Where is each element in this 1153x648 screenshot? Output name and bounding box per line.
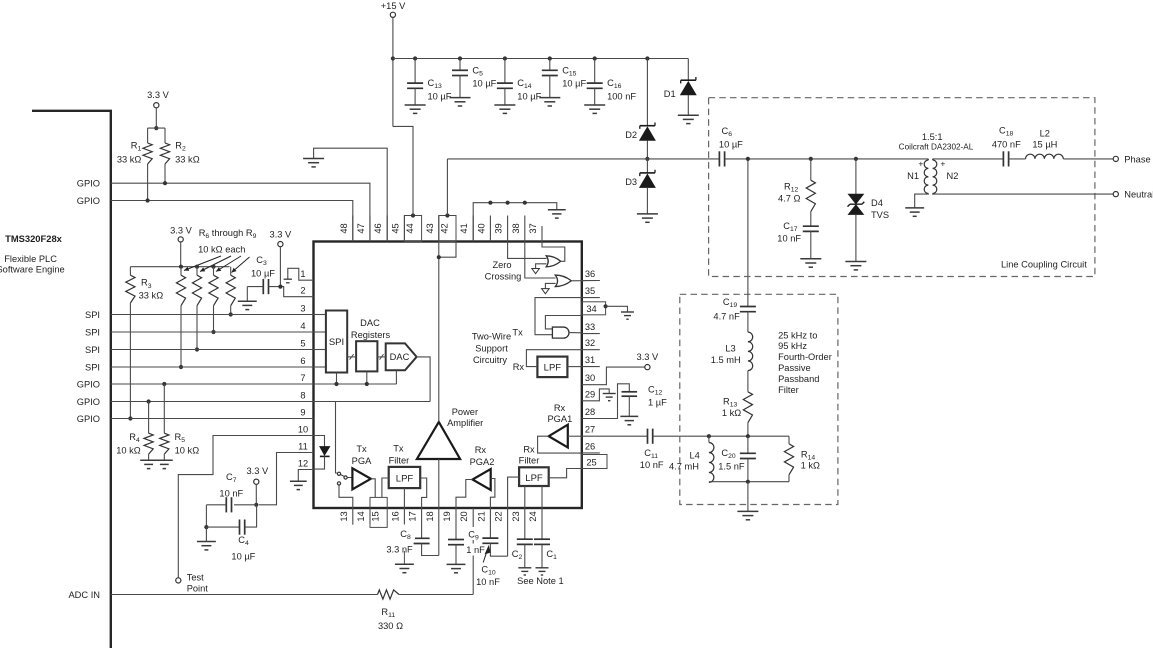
pin 15 lead (bottom) bbox=[370, 497, 387, 527]
svg-text:23: 23 bbox=[511, 511, 521, 521]
Tx PGA amplifier bbox=[352, 468, 370, 489]
bus DAC Registers to DAC bbox=[377, 356, 385, 358]
svg-text:SPI: SPI bbox=[85, 362, 100, 372]
wire pin 34 to AND input bbox=[545, 316, 581, 329]
wire Power Amplifier output pin 18 bbox=[438, 459, 440, 508]
svg-text:GPIO: GPIO bbox=[77, 196, 100, 206]
wire MCU row y=314.5 bbox=[111, 314, 314, 316]
Tx input switch bbox=[337, 472, 340, 475]
pin 24 lead (bottom) bbox=[541, 508, 543, 539]
pin 16 lead (bottom) bbox=[403, 508, 405, 525]
svg-text:1.5 mH: 1.5 mH bbox=[711, 355, 741, 365]
svg-text:10 nF: 10 nF bbox=[640, 460, 664, 470]
svg-text:33 kΩ: 33 kΩ bbox=[117, 154, 142, 164]
wire pin 28 to C12 bbox=[582, 384, 630, 419]
wire C18 to L2 bbox=[1009, 158, 1026, 160]
svg-text:Point: Point bbox=[187, 584, 209, 594]
ground under C13 bbox=[405, 105, 426, 113]
diode D1 bbox=[687, 59, 689, 81]
ground under C2 bbox=[518, 568, 531, 575]
ground at pin 29 bbox=[603, 394, 616, 401]
IC AFE031 outline bbox=[314, 242, 582, 509]
wire Rx LPF out to pin 25 bbox=[549, 469, 582, 478]
svg-text:18: 18 bbox=[425, 511, 435, 521]
svg-text:4: 4 bbox=[300, 321, 305, 331]
svg-text:ADC IN: ADC IN bbox=[68, 590, 100, 600]
svg-text:1.5 nF: 1.5 nF bbox=[718, 461, 745, 471]
wire gate2 lower input inverter bbox=[545, 283, 555, 288]
ground for pins 38-41 bbox=[548, 210, 566, 218]
capacitor C6 bbox=[719, 151, 724, 166]
wire gate1 lower input inverter bbox=[536, 264, 547, 269]
pin 45 lead (top) bbox=[403, 216, 405, 242]
svg-text:3.3 V: 3.3 V bbox=[246, 466, 269, 476]
wire N2 to C18 bbox=[933, 158, 1004, 160]
label C10 with arrow bbox=[483, 551, 487, 563]
capacitor C20 bbox=[747, 436, 749, 453]
wire gate1 output to pin 37 bbox=[542, 242, 565, 262]
logic gate zero-cross 1 bbox=[546, 256, 561, 267]
ground under N1 bbox=[905, 208, 924, 216]
wire MCU row y=349.5 bbox=[111, 349, 314, 351]
ground under D4 bbox=[845, 262, 866, 270]
pin 44 lead (top) bbox=[404, 216, 421, 242]
wire N1 bottom to ground bbox=[915, 194, 929, 208]
svg-text:8: 8 bbox=[300, 390, 305, 400]
ground at pin 12 bbox=[290, 481, 307, 489]
svg-text:7: 7 bbox=[300, 373, 305, 383]
ground under C1 bbox=[536, 568, 549, 575]
svg-text:Passband: Passband bbox=[778, 374, 819, 384]
pin 26 lead (right) bbox=[582, 452, 600, 454]
svg-text:24: 24 bbox=[528, 511, 538, 521]
svg-text:Tx: Tx bbox=[512, 327, 523, 337]
svg-text:D1: D1 bbox=[664, 89, 676, 99]
capacitor C7 bbox=[234, 504, 256, 506]
wire pin 29 to ground bbox=[582, 389, 609, 401]
Rx Filter LPF block (pins 22-24) bbox=[519, 467, 549, 486]
svg-text:Two-Wire: Two-Wire bbox=[472, 332, 511, 342]
svg-text:10 µF: 10 µF bbox=[562, 79, 586, 89]
svg-text:4.7 mH: 4.7 mH bbox=[669, 462, 699, 472]
capacitor C4 bbox=[206, 526, 239, 528]
Two-Wire LPF block bbox=[537, 357, 567, 378]
svg-text:10 nF: 10 nF bbox=[777, 234, 801, 244]
ground at pin 34 bbox=[621, 312, 634, 319]
svg-text:28: 28 bbox=[585, 407, 595, 417]
wire C6 to transformer bbox=[725, 158, 929, 160]
pin 40 lead (top) bbox=[489, 216, 491, 242]
svg-text:12: 12 bbox=[298, 458, 308, 468]
capacitor C5 bbox=[458, 56, 462, 60]
svg-text:LPF: LPF bbox=[525, 473, 543, 484]
svg-text:10 nF: 10 nF bbox=[219, 489, 243, 499]
ground under C3 bbox=[238, 301, 257, 309]
bus SPI to DAC Registers bbox=[347, 356, 356, 358]
svg-text:3.3 V: 3.3 V bbox=[270, 230, 293, 240]
svg-text:48: 48 bbox=[339, 223, 349, 233]
svg-text:20: 20 bbox=[459, 511, 469, 521]
pin 31 lead (right) bbox=[582, 366, 600, 368]
wire +15V rail horizontal bbox=[393, 58, 688, 60]
svg-text:D4: D4 bbox=[871, 198, 883, 208]
svg-text:33: 33 bbox=[585, 322, 595, 332]
wire R11 to pin 20 bbox=[399, 594, 473, 596]
Power Amplifier bbox=[417, 422, 460, 459]
pin 39 lead (top) bbox=[507, 216, 509, 242]
node R12 junction bbox=[809, 157, 813, 161]
svg-text:Neutral: Neutral bbox=[1124, 190, 1153, 200]
svg-text:3.3 V: 3.3 V bbox=[170, 225, 193, 235]
svg-text:Rx: Rx bbox=[554, 403, 566, 413]
logic gate zero-cross 2 bbox=[555, 275, 571, 287]
junction on ground rail bbox=[523, 201, 527, 205]
svg-text:Support: Support bbox=[475, 343, 508, 353]
Tx Filter LPF block bbox=[389, 467, 421, 488]
svg-text:L3: L3 bbox=[725, 344, 735, 354]
pin 20 lead (bottom) bbox=[472, 508, 474, 595]
wire DAC output bbox=[417, 357, 431, 402]
wire pin 30 to 3.3V bbox=[582, 367, 645, 385]
wire DAC to Tx switch bbox=[336, 402, 337, 474]
ground under R5 bbox=[156, 460, 173, 468]
svg-text:29: 29 bbox=[585, 389, 595, 399]
wire C6 node down to C19 bbox=[747, 159, 749, 307]
svg-text:SPI: SPI bbox=[329, 337, 344, 348]
ground under C15 bbox=[539, 98, 560, 106]
resistor R2 bbox=[164, 128, 166, 143]
svg-text:3: 3 bbox=[300, 303, 305, 313]
svg-text:SPI: SPI bbox=[85, 310, 100, 320]
ground under filter bbox=[747, 482, 749, 512]
pin 46 lead (top) bbox=[386, 216, 388, 242]
svg-text:Filter: Filter bbox=[519, 456, 540, 466]
wire +15V to pin 44 bbox=[393, 126, 413, 215]
svg-text:1.5:1: 1.5:1 bbox=[922, 132, 943, 142]
label C8 bbox=[396, 527, 415, 539]
resistor R6 pull-up bbox=[179, 265, 183, 269]
svg-text:GPIO: GPIO bbox=[77, 414, 100, 424]
label C9 bbox=[464, 527, 485, 540]
svg-text:Registers: Registers bbox=[351, 330, 391, 340]
resistor R5 bbox=[162, 382, 166, 386]
pin 48 lead (top) bbox=[352, 216, 354, 242]
resistor R14 bbox=[788, 436, 790, 444]
svg-text:Coilcraft DA2302-AL: Coilcraft DA2302-AL bbox=[899, 142, 974, 151]
pin 41 lead (top) bbox=[472, 216, 474, 242]
wire pin 34 to ground bbox=[606, 306, 628, 312]
arrows pointing to R6-R9 bbox=[184, 256, 221, 271]
filter dashed border bbox=[680, 294, 838, 504]
ground top-left bbox=[303, 159, 324, 167]
pin 35 lead (right) bbox=[582, 297, 600, 299]
diode D2 bbox=[645, 56, 649, 60]
pin 19 lead (bottom) bbox=[455, 508, 457, 540]
ground under C12 bbox=[620, 416, 638, 424]
svg-text:5: 5 bbox=[300, 338, 305, 348]
wire N2 bottom to Neutral bbox=[933, 193, 1114, 196]
capacitor C1 bbox=[534, 539, 550, 544]
capacitor C18 bbox=[1003, 151, 1008, 166]
svg-text:Fourth-Order: Fourth-Order bbox=[778, 352, 832, 362]
svg-text:6: 6 bbox=[300, 356, 305, 366]
transformer primary N1 bbox=[924, 160, 928, 194]
wire GPIO to pin 47 bbox=[111, 183, 370, 241]
svg-text:GPIO: GPIO bbox=[77, 179, 100, 189]
svg-text:SPI: SPI bbox=[85, 345, 100, 355]
junction on ground rail bbox=[506, 201, 510, 205]
svg-text:43: 43 bbox=[425, 223, 435, 233]
ground under C16 bbox=[584, 105, 605, 113]
svg-text:Power: Power bbox=[452, 407, 478, 417]
svg-text:10 kΩ: 10 kΩ bbox=[175, 445, 200, 455]
wire Rx PGA2 input from pin 21 bbox=[490, 479, 495, 509]
svg-text:N2: N2 bbox=[947, 171, 959, 181]
svg-text:DAC: DAC bbox=[360, 318, 380, 328]
svg-text:PGA: PGA bbox=[352, 456, 372, 466]
wire C3 to pin 2 bbox=[269, 287, 314, 297]
svg-text:38: 38 bbox=[511, 223, 521, 233]
wire rows 3-6 into SPI block bbox=[314, 314, 326, 316]
wire pin 12 to ground bbox=[298, 470, 313, 482]
junction on ground rail bbox=[488, 201, 492, 205]
inductor L3 bbox=[747, 312, 749, 332]
node L4 top bbox=[707, 434, 711, 438]
svg-text:33 kΩ: 33 kΩ bbox=[175, 154, 200, 164]
resistor R8 pull-up bbox=[211, 265, 215, 269]
wire pin 10 to test point bbox=[178, 436, 313, 578]
wire MCU row y=367 bbox=[111, 366, 314, 368]
wire gate2 output pin 36 bbox=[571, 280, 600, 282]
resistor R4 bbox=[147, 399, 151, 403]
svg-text:3.3 V: 3.3 V bbox=[637, 352, 660, 362]
resistor R9 pull-up bbox=[230, 267, 232, 276]
svg-text:33 kΩ: 33 kΩ bbox=[139, 291, 164, 301]
wire Rx PGA2 output to pin 19 bbox=[456, 480, 473, 509]
wire pin 7 bus under blocks bbox=[314, 383, 397, 385]
resistor R1 bbox=[147, 128, 149, 143]
svg-text:Rx: Rx bbox=[523, 445, 535, 455]
capacitor C13 bbox=[413, 56, 417, 60]
svg-text:330 Ω: 330 Ω bbox=[378, 621, 403, 631]
diode D4 TVS bbox=[855, 159, 857, 194]
pin 18 lead (bottom) bbox=[438, 508, 440, 556]
svg-text:30: 30 bbox=[585, 373, 595, 383]
svg-text:15 µH: 15 µH bbox=[1032, 139, 1057, 149]
wire pins 41-38 ground rail bbox=[473, 203, 557, 242]
transformer secondary N2 bbox=[933, 160, 937, 194]
svg-text:PGA1: PGA1 bbox=[547, 414, 572, 424]
pin 13 lead (bottom) bbox=[352, 508, 354, 525]
svg-text:10 µF: 10 µF bbox=[472, 79, 496, 89]
svg-text:3.3 V: 3.3 V bbox=[147, 90, 170, 100]
wire switch lower contact to pin 13 bbox=[339, 485, 353, 508]
pin 22 lead (bottom) bbox=[507, 508, 509, 556]
svg-text:Crossing: Crossing bbox=[485, 272, 522, 282]
ground under C5 bbox=[450, 98, 471, 106]
svg-text:4.7 Ω: 4.7 Ω bbox=[778, 193, 801, 203]
svg-text:+15 V: +15 V bbox=[381, 1, 406, 11]
ground for pin 16 net bbox=[403, 551, 405, 564]
svg-text:L4: L4 bbox=[690, 451, 700, 461]
svg-text:Test: Test bbox=[187, 573, 204, 583]
wire pin 39 to gate1 input bbox=[508, 242, 547, 259]
inductor L2 bbox=[1026, 154, 1064, 159]
svg-text:26: 26 bbox=[585, 441, 595, 451]
svg-text:D3: D3 bbox=[625, 177, 637, 187]
svg-text:35: 35 bbox=[585, 286, 595, 296]
capacitor C11 bbox=[648, 429, 653, 444]
ground under C4 node bbox=[205, 527, 207, 541]
svg-text:N1: N1 bbox=[907, 171, 919, 181]
svg-text:Filter: Filter bbox=[778, 385, 799, 395]
pin 34 lead (right) bbox=[582, 302, 606, 315]
svg-text:10 µF: 10 µF bbox=[251, 268, 275, 278]
ground under D1 bbox=[678, 115, 699, 123]
capacitor C3 bbox=[263, 279, 268, 294]
pin 33 lead (right) bbox=[582, 333, 600, 335]
svg-text:Phase: Phase bbox=[1124, 154, 1150, 164]
svg-text:Flexible PLC: Flexible PLC bbox=[4, 254, 57, 264]
capacitor C8 bbox=[414, 538, 430, 543]
wire pin 42 main line to C6 bbox=[446, 159, 448, 216]
wire Rx PGA1 output to pin 26 bbox=[538, 436, 582, 453]
wire pin 11 to C7 node bbox=[259, 453, 314, 505]
svg-text:L2: L2 bbox=[1040, 128, 1050, 138]
svg-text:39: 39 bbox=[494, 223, 504, 233]
capacitor C14 bbox=[503, 56, 507, 60]
svg-text:See Note 1: See Note 1 bbox=[517, 576, 564, 586]
svg-text:10: 10 bbox=[298, 424, 308, 434]
Rx PGA1 amplifier bbox=[549, 425, 568, 448]
svg-text:Circuitry: Circuitry bbox=[473, 355, 507, 365]
pin 32 lead (right) bbox=[582, 349, 600, 351]
diode D3 bbox=[646, 159, 648, 173]
svg-text:10 µF: 10 µF bbox=[428, 91, 452, 101]
SPI block bbox=[326, 311, 347, 373]
svg-text:14: 14 bbox=[356, 511, 366, 521]
pin 43 lead (top) bbox=[438, 216, 440, 242]
svg-text:+: + bbox=[940, 159, 945, 169]
wire Tx LPF ground leg pin 16 bbox=[403, 488, 405, 508]
svg-text:10 kΩ each: 10 kΩ each bbox=[198, 245, 245, 255]
ground under R4 bbox=[140, 460, 157, 468]
resistor R12 bbox=[810, 159, 812, 180]
pin 36 lead (right) bbox=[582, 280, 600, 282]
wire filter bottom rail bbox=[709, 481, 789, 483]
DAC Registers block bbox=[356, 341, 377, 371]
Phase terminal bbox=[1113, 156, 1118, 161]
ground under D3 bbox=[637, 214, 658, 222]
inductor L4 bbox=[709, 443, 714, 483]
wire MCU row y=401.5 bbox=[111, 401, 314, 403]
svg-text:36: 36 bbox=[585, 269, 595, 279]
svg-text:16: 16 bbox=[390, 511, 400, 521]
svg-text:Zero: Zero bbox=[492, 260, 511, 270]
svg-text:40: 40 bbox=[476, 223, 486, 233]
svg-text:Rx: Rx bbox=[513, 362, 525, 372]
svg-text:1 nF: 1 nF bbox=[466, 545, 485, 555]
wire Rx LPF input pin 22 bbox=[508, 477, 519, 508]
wire pin 1 step to ground bbox=[288, 268, 314, 280]
svg-text:32: 32 bbox=[585, 338, 595, 348]
wire GPIO to pin 48 bbox=[111, 201, 353, 242]
svg-text:SPI: SPI bbox=[85, 327, 100, 337]
svg-text:Rx: Rx bbox=[475, 445, 487, 455]
svg-text:25: 25 bbox=[586, 458, 596, 468]
svg-text:GPIO: GPIO bbox=[77, 379, 100, 389]
svg-text:LPF: LPF bbox=[544, 363, 562, 374]
svg-text:22: 22 bbox=[494, 511, 504, 521]
svg-text:Passive: Passive bbox=[778, 363, 811, 373]
node C20 top bbox=[746, 434, 750, 438]
svg-text:13: 13 bbox=[339, 511, 349, 521]
pin 47 lead (top) bbox=[369, 216, 371, 242]
svg-text:46: 46 bbox=[373, 223, 383, 233]
pin 37 lead (top) bbox=[541, 226, 543, 242]
wire MCU row pin7 bus bbox=[111, 383, 397, 385]
wire Two-Wire LPF left pin 32 bbox=[526, 350, 581, 367]
diode LED pins 10-12 bbox=[314, 436, 325, 447]
capacitor C12 bbox=[622, 392, 638, 396]
pin 21 lead (bottom) bbox=[489, 508, 491, 538]
svg-text:1: 1 bbox=[300, 269, 305, 279]
Rx PGA2 amplifier bbox=[473, 469, 491, 490]
wire pins 42/43 to Power Amplifier input bbox=[439, 242, 456, 258]
wire 3.3V bus bbox=[130, 266, 229, 268]
svg-text:42: 42 bbox=[439, 223, 449, 233]
wire pin 46 to ground bbox=[314, 148, 388, 241]
wire Rx PGA1 input pin 27 bbox=[568, 435, 582, 437]
capacitor C17 bbox=[803, 226, 819, 231]
svg-text:+: + bbox=[918, 159, 923, 169]
svg-text:PGA2: PGA2 bbox=[470, 457, 495, 467]
svg-text:34: 34 bbox=[586, 304, 596, 314]
capacitor C16 bbox=[593, 56, 597, 60]
wire AND output pin 33 bbox=[569, 332, 582, 334]
node D4 junction bbox=[854, 157, 858, 161]
svg-text:44: 44 bbox=[405, 223, 415, 233]
capacitor C19 bbox=[740, 307, 756, 312]
wire pin 38 to gate2 input bbox=[525, 242, 556, 279]
pin 14 lead (bottom) bbox=[369, 508, 371, 524]
pin 25 lead (right) bbox=[582, 455, 607, 469]
svg-text:25 kHz to: 25 kHz to bbox=[778, 330, 817, 340]
svg-text:3.3 nF: 3.3 nF bbox=[386, 544, 413, 554]
svg-text:9: 9 bbox=[300, 407, 305, 417]
wire pin 27 row bbox=[582, 435, 648, 437]
pin 17 lead (bottom) bbox=[421, 508, 423, 538]
wire MCU row y=418.5 bbox=[111, 418, 314, 420]
svg-text:2: 2 bbox=[300, 286, 305, 296]
svg-text:10 µF: 10 µF bbox=[231, 552, 255, 562]
wire L2 to Phase terminal bbox=[1063, 158, 1113, 160]
svg-text:95 kHz: 95 kHz bbox=[778, 341, 807, 351]
MCU TMS320F28x boundary bbox=[32, 111, 111, 648]
svg-text:Software Engine: Software Engine bbox=[0, 265, 65, 275]
svg-text:11: 11 bbox=[298, 441, 308, 451]
wire pin 35 to AND input bbox=[535, 298, 582, 335]
wire Tx PGA out bbox=[371, 479, 375, 498]
capacitor C15 bbox=[548, 56, 552, 60]
svg-text:TMS320F28x: TMS320F28x bbox=[5, 233, 63, 244]
svg-text:D2: D2 bbox=[625, 130, 637, 140]
svg-text:1 µF: 1 µF bbox=[648, 397, 667, 407]
resistor R13 bbox=[743, 392, 752, 423]
wire Rx LPF legs to pins 23 24 bbox=[524, 486, 526, 508]
svg-text:47: 47 bbox=[356, 223, 366, 233]
ground under C17 bbox=[800, 259, 821, 267]
